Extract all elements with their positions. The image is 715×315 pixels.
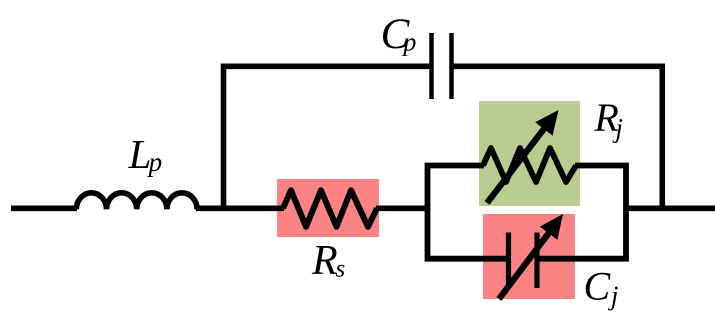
svg-text:Rj: Rj [593, 95, 622, 143]
svg-text:Cp: Cp [381, 11, 417, 58]
svg-text:Lp: Lp [128, 131, 163, 177]
svg-text:Rs: Rs [311, 238, 345, 284]
svg-text:Cj: Cj [584, 263, 619, 310]
